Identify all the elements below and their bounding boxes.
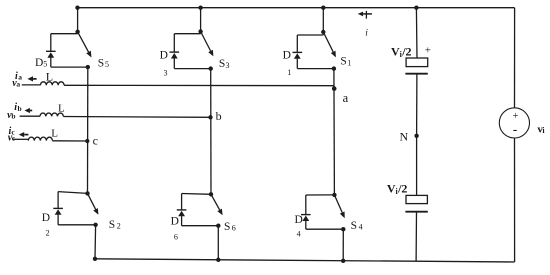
svg-text:b: b [18, 104, 22, 113]
svg-text:-: - [513, 122, 517, 137]
svg-text:/2: /2 [397, 182, 407, 196]
svg-text:+: + [512, 111, 518, 122]
svg-text:N: N [400, 129, 409, 143]
svg-text:S: S [224, 221, 230, 233]
svg-text:1: 1 [287, 68, 291, 77]
svg-text:S: S [340, 56, 346, 68]
svg-text:/2: /2 [401, 45, 411, 59]
svg-text:D: D [295, 214, 303, 226]
svg-text:+: + [425, 45, 431, 57]
svg-text:D: D [160, 50, 168, 62]
svg-text:S: S [98, 57, 104, 69]
svg-text:4: 4 [297, 229, 301, 238]
svg-text:5: 5 [43, 60, 47, 69]
svg-text:2: 2 [46, 229, 50, 238]
svg-text:D: D [35, 57, 43, 69]
svg-text:4: 4 [359, 223, 363, 232]
svg-text:L: L [51, 128, 58, 140]
svg-text:S: S [351, 220, 357, 232]
svg-text:3: 3 [226, 61, 230, 70]
svg-text:2: 2 [117, 221, 121, 230]
svg-text:a: a [16, 79, 20, 88]
svg-text:i: i [542, 126, 545, 135]
svg-text:1: 1 [347, 58, 351, 67]
svg-text:b: b [11, 111, 15, 120]
svg-text:D: D [171, 216, 179, 228]
svg-text:D: D [283, 50, 291, 62]
svg-text:c: c [93, 133, 98, 147]
svg-text:L: L [46, 70, 53, 84]
svg-text:5: 5 [105, 60, 109, 69]
svg-text:D: D [42, 212, 50, 224]
svg-text:c: c [12, 134, 16, 143]
svg-text:i: i [365, 29, 368, 39]
svg-text:S: S [109, 219, 115, 231]
svg-text:6: 6 [232, 223, 236, 232]
svg-text:6: 6 [174, 233, 178, 242]
svg-text:3: 3 [164, 69, 168, 78]
svg-text:S: S [219, 58, 225, 70]
svg-text:b: b [216, 109, 222, 123]
svg-text:L: L [58, 103, 65, 115]
svg-text:a: a [343, 91, 349, 105]
